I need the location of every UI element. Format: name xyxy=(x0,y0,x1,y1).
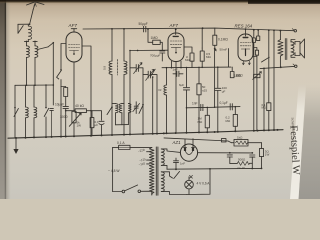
svg-text:1W: 1W xyxy=(265,153,270,157)
svg-text:40 kΩ: 40 kΩ xyxy=(75,104,84,108)
antenna xyxy=(27,2,45,24)
band switch S1 xyxy=(48,42,54,85)
capacitor 10uuF on x65.7 xyxy=(63,107,68,111)
transformer core xyxy=(156,147,158,195)
wire rf drop x53 xyxy=(52,85,54,105)
tuning coil L2b xyxy=(35,41,38,85)
coil L3b row2 xyxy=(34,85,37,137)
switch S5 osc xyxy=(151,69,156,133)
svg-text:10μμF: 10μμF xyxy=(55,102,64,106)
field coil zigzag xyxy=(278,30,283,68)
svg-text:4 V 0,6 A: 4 V 0,6 A xyxy=(197,181,211,185)
svg-text:μF: μF xyxy=(222,89,226,93)
svg-text:6μF: 6μF xyxy=(179,83,184,87)
terminal antenna rail end xyxy=(292,29,296,32)
wire screen row xyxy=(65,110,75,137)
wire heater line xyxy=(167,168,262,171)
wire AZ1 output xyxy=(198,152,254,154)
wire lamp bottom xyxy=(187,169,210,195)
svg-text:μF: μF xyxy=(95,123,99,127)
resistor 3ohm box right xyxy=(260,143,264,169)
node antenna coil tap ticks xyxy=(24,41,37,43)
switch S4 on grid wire xyxy=(57,69,62,87)
resistor R screen box x65.7 xyxy=(61,87,68,107)
variable capacitor C tune2 xyxy=(143,69,157,133)
IF transformer core dashes xyxy=(117,60,119,76)
book gutter dark left edge xyxy=(0,0,6,199)
terminal speaker line xyxy=(293,64,297,68)
chassis bus xyxy=(8,130,283,139)
tube V2 internals xyxy=(170,41,181,53)
switch S3 row2 xyxy=(44,85,49,137)
tube V3 RES164 envelope xyxy=(238,34,253,61)
svg-text:RES 164: RES 164 xyxy=(235,24,253,29)
output transformer core xyxy=(285,39,287,60)
wire V1 anode right xyxy=(82,46,91,136)
svg-text:Cu W: Cu W xyxy=(238,166,245,170)
svg-text:50mF: 50mF xyxy=(220,48,228,52)
page white edge strip xyxy=(290,85,306,199)
svg-text:1W: 1W xyxy=(77,124,82,128)
AZ1 anode leads xyxy=(184,139,195,155)
potentiometer volume xyxy=(253,72,262,80)
coil IF bank b xyxy=(119,103,124,124)
wire IF bank bottom link xyxy=(116,124,129,126)
capacitor 50uuF in rail xyxy=(142,26,146,32)
mains switch xyxy=(113,185,152,195)
resistor smoothing box with zigzag xyxy=(232,139,262,146)
tuning coil L2a xyxy=(27,41,30,85)
capacitor 1nF AZ1 xyxy=(174,158,179,169)
loudspeaker xyxy=(295,39,305,58)
svg-text:1kΩ: 1kΩ xyxy=(237,135,243,139)
top HT rail xyxy=(83,28,294,31)
resistor 1MOhm AVC box xyxy=(205,107,209,131)
svg-text:1MΩ: 1MΩ xyxy=(234,74,241,78)
wire V1 grid left xyxy=(61,44,66,70)
tube V1 top cap xyxy=(71,29,76,32)
wire lamp top xyxy=(188,177,190,181)
variable capacitor C tune1 xyxy=(130,63,143,134)
wire grid stopper diagonal xyxy=(262,57,270,62)
svg-text:1MΩ: 1MΩ xyxy=(151,36,159,40)
svg-text:MΩ: MΩ xyxy=(185,58,190,62)
capacitor C pad row2 xyxy=(50,108,54,137)
transformer secondary upper xyxy=(161,149,180,169)
wire V3 grid top xyxy=(243,28,248,37)
wire L2 HT line xyxy=(164,138,232,143)
svg-text:~ 4,8 W: ~ 4,8 W xyxy=(108,169,120,173)
svg-text:1nF: 1nF xyxy=(180,162,185,166)
tube V2 AF7 envelope xyxy=(168,33,184,62)
switch S6 IF bank xyxy=(107,106,113,114)
mains transformer primary xyxy=(149,147,154,195)
capacitor electrolytic 6uF xyxy=(183,68,189,133)
capacitor 100uF xyxy=(215,67,221,132)
output transformer secondary coil xyxy=(291,40,295,58)
switch S7 IF bank xyxy=(139,104,144,114)
capacitor 0.1uF box xyxy=(90,111,94,136)
resistor 0.2MOhm box xyxy=(233,107,237,132)
resistor 0.5MOhm box left xyxy=(200,48,204,68)
wire V1 cathode down xyxy=(73,62,75,111)
svg-text:0,1MΩ: 0,1MΩ xyxy=(218,38,228,42)
right page gray corner xyxy=(299,85,320,199)
IF transformer secondary coil xyxy=(123,28,127,135)
capacitor block 50/25 box xyxy=(197,67,201,132)
wire AVC row2 xyxy=(214,106,240,108)
trimmer capacitor IF bank xyxy=(133,102,140,114)
resistor 0.1MOhm box xyxy=(202,27,217,51)
wire V2 pins down xyxy=(172,61,182,133)
IF transformer primary coil xyxy=(109,28,113,135)
wire V3 pins xyxy=(242,61,250,65)
resistor 500ohm zigzag xyxy=(230,161,253,168)
wire speaker bottom line xyxy=(260,66,294,69)
tube V1 internals xyxy=(69,45,80,55)
antenna coil L1 xyxy=(28,24,31,41)
svg-text:1nF: 1nF xyxy=(192,102,198,106)
pilot lamp xyxy=(185,180,194,189)
svg-text:MΩ: MΩ xyxy=(198,120,203,124)
svg-text:0,1 A: 0,1 A xyxy=(117,141,125,145)
svg-text:0,1μF: 0,1μF xyxy=(220,101,228,105)
svg-text:AF7: AF7 xyxy=(169,23,179,28)
svg-text:AZ1: AZ1 xyxy=(172,140,182,145)
transformer secondary lower xyxy=(161,172,187,195)
coil IF bank c xyxy=(128,104,131,125)
tube V3 internals xyxy=(240,43,250,56)
grid stopper box V3 xyxy=(253,48,259,57)
capacitor 1nF AVC xyxy=(201,104,203,110)
svg-text:0,8: 0,8 xyxy=(103,65,107,70)
svg-text:700μμF: 700μμF xyxy=(150,54,160,58)
resistor cathode box V1 xyxy=(72,111,76,136)
resistor 40kOhm box xyxy=(75,109,92,113)
ground xyxy=(13,138,18,154)
svg-text:n25: n25 xyxy=(202,88,207,92)
resistor 0.5MOhm box right xyxy=(267,29,271,130)
capacitor smoothing 2 xyxy=(250,155,255,163)
capacitor electrolytic x101.5 xyxy=(91,111,104,136)
wire grid bus y85 xyxy=(15,84,54,86)
wire drop x264 xyxy=(263,68,265,130)
coil IF bank a xyxy=(112,104,118,125)
wire V2 grid top xyxy=(173,29,178,37)
transformer primary taps xyxy=(147,152,150,164)
lamp cross mark xyxy=(190,175,193,178)
resistor 2MOhm box below H2 xyxy=(230,67,234,78)
wire osc rail y50.5 xyxy=(129,50,168,52)
dark top page edge xyxy=(0,0,320,3)
svg-text:Dr: Dr xyxy=(159,88,162,92)
capacitor 700uuF xyxy=(160,51,165,61)
wire osc drop x130 xyxy=(129,51,131,135)
wire drop x274 xyxy=(273,30,275,131)
svg-text:500Ω: 500Ω xyxy=(238,158,246,162)
rectifier AZ1 xyxy=(180,144,197,161)
bus junction dots xyxy=(15,129,279,139)
wire V3 grid feed xyxy=(228,49,230,68)
tube V1 AF7 envelope xyxy=(66,32,82,62)
resistor 1MOhm grid box xyxy=(147,28,162,50)
switch S2 row2 xyxy=(14,107,18,138)
svg-text:MΩ: MΩ xyxy=(206,55,211,59)
wire AVC row 1nF xyxy=(186,107,214,109)
wire left drop xyxy=(14,85,16,107)
antenna series switch xyxy=(18,23,30,33)
svg-text:50μμF: 50μμF xyxy=(139,22,148,26)
trimmer capacitor A xyxy=(252,29,255,131)
mains lead left xyxy=(112,147,114,191)
svg-text:MΩ: MΩ xyxy=(226,119,231,123)
svg-text:1nF: 1nF xyxy=(173,68,178,72)
small box 4ohm on L2 xyxy=(221,139,226,142)
svg-text:MΩ: MΩ xyxy=(262,106,266,110)
wire V3 pot drop xyxy=(256,57,258,131)
resistor anode box V2 xyxy=(190,53,194,68)
trimmer capacitor B xyxy=(257,29,260,40)
svg-text:AF7: AF7 xyxy=(68,23,78,28)
switch heater xyxy=(174,169,180,179)
choke Dr xyxy=(164,68,167,134)
capacitor 1nF V2 grid xyxy=(173,71,183,76)
potentiometer arrow V1 cathode xyxy=(69,113,81,126)
wire AVC drop x214.6 xyxy=(214,49,216,107)
capacitor 0.1uF AVC xyxy=(230,104,232,110)
wire screen drop x61 to bus xyxy=(60,87,62,137)
wire coil link xyxy=(38,47,48,50)
wire V2 anode right xyxy=(184,47,192,53)
capacitor smoothing 1 xyxy=(227,155,232,164)
coil L3a row2 xyxy=(26,85,29,137)
fuse 0.1A xyxy=(113,145,152,149)
wire heater row H2 xyxy=(162,66,231,68)
